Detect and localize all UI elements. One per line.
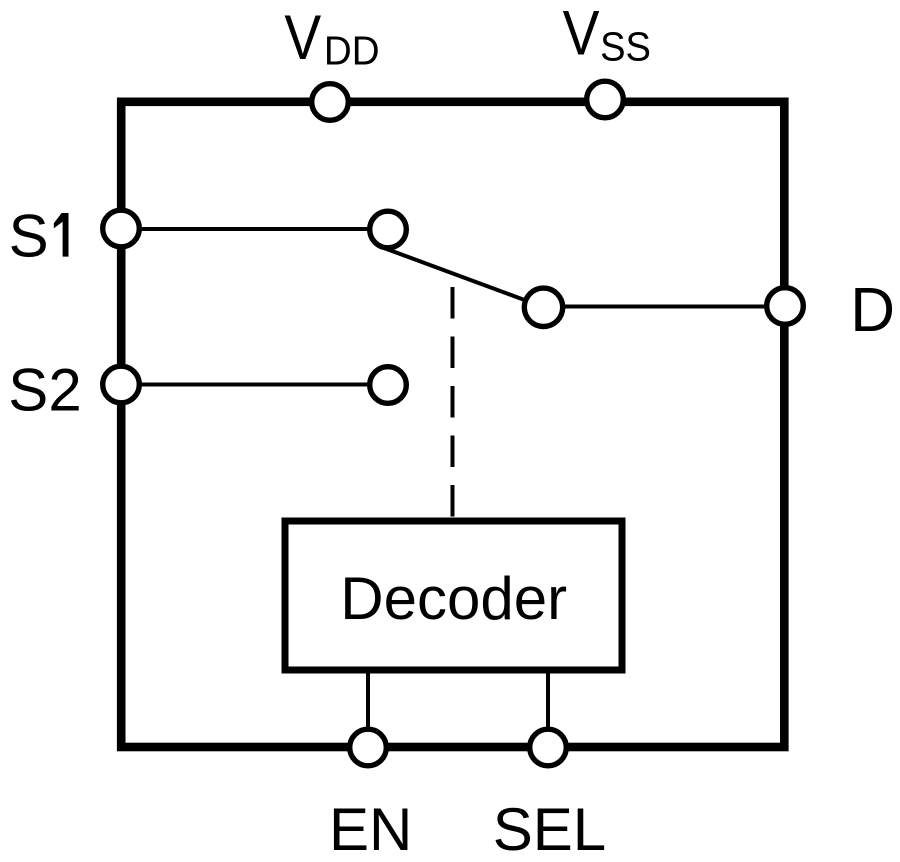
svg-text:SEL: SEL	[493, 796, 606, 862]
svg-text:S: S	[9, 203, 49, 270]
svg-text:V: V	[563, 0, 600, 68]
svg-text:Decoder: Decoder	[340, 565, 567, 632]
svg-text:EN: EN	[329, 796, 412, 862]
svg-text:V: V	[284, 1, 321, 72]
svg-text:D: D	[850, 276, 895, 345]
svg-text:SS: SS	[600, 24, 651, 70]
svg-text:DD: DD	[324, 28, 380, 73]
svg-text:S2: S2	[8, 357, 81, 424]
